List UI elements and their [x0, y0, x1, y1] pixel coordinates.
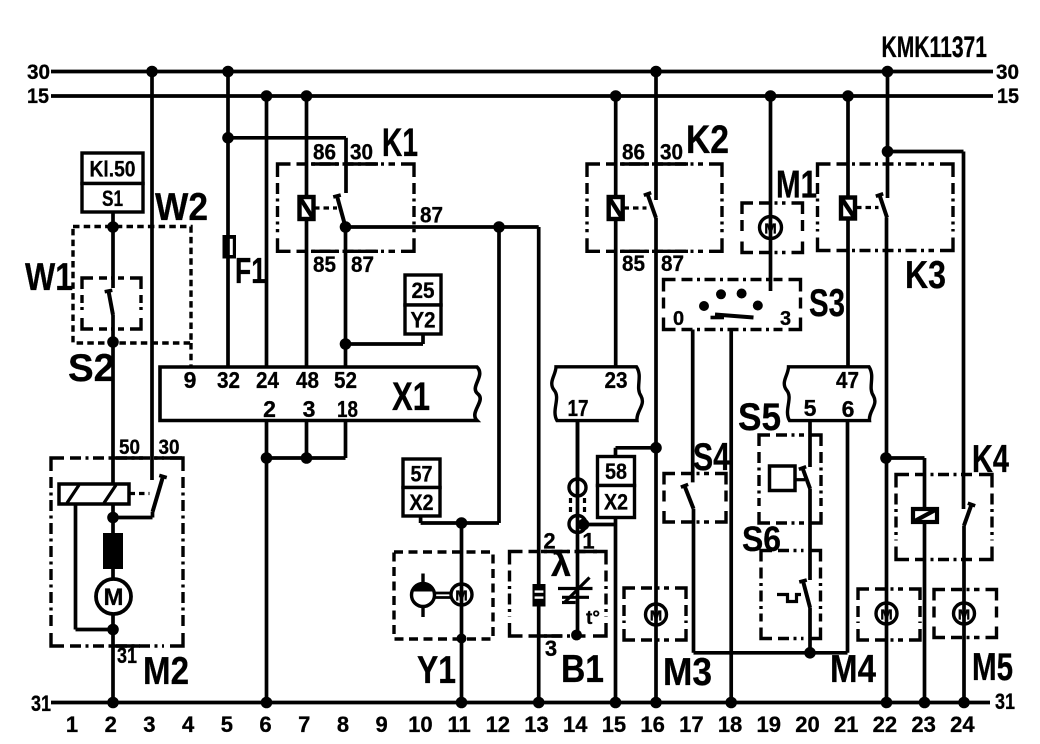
- svg-text:X2: X2: [604, 490, 628, 515]
- svg-text:86: 86: [622, 140, 645, 165]
- connector flag 23/17: [552, 367, 643, 421]
- relay K2 box: [587, 164, 722, 251]
- junction dot bus15 col6: [261, 90, 273, 102]
- switch S3 wiper: [711, 315, 754, 318]
- switch S3 box: [664, 280, 801, 330]
- svg-text:4: 4: [182, 712, 195, 737]
- junction dot bus30 col3: [146, 66, 158, 78]
- svg-text:58: 58: [605, 459, 627, 484]
- wire flag6 down: [846, 421, 850, 653]
- sensor B1 box: [510, 552, 607, 637]
- junction dot bus31 col23: [919, 697, 931, 709]
- svg-text:1: 1: [66, 712, 78, 737]
- net 30 bus label right: [996, 61, 1019, 84]
- svg-text:3: 3: [303, 396, 316, 422]
- wire M2 blade out: [113, 512, 153, 518]
- terminal label 50: [119, 436, 140, 459]
- svg-text:30: 30: [660, 140, 683, 165]
- switch K2 blade: [644, 193, 656, 218]
- connector X1 body: [160, 367, 480, 421]
- relay K3 box: [818, 164, 954, 251]
- pin label 5: [804, 395, 817, 421]
- wire W2 dashed to X1 pin 9: [189, 343, 192, 367]
- wire M3 through motor: [654, 604, 658, 625]
- label K1: [382, 121, 418, 165]
- wire K2 coil column: [614, 96, 618, 367]
- wire X1 pins join: [267, 456, 346, 460]
- motor M2 circle: [96, 579, 131, 614]
- relay coil K2: [609, 197, 623, 219]
- svg-text:52: 52: [334, 367, 357, 393]
- relay coil K4: [913, 509, 937, 522]
- solid bars B1 pins: [540, 552, 597, 637]
- solid bar under 50: [114, 456, 143, 459]
- junction dot bus31 col16: [650, 697, 662, 709]
- terminal label 30 K1: [350, 140, 373, 165]
- svg-text:M3: M3: [663, 651, 712, 694]
- motor M3 box: [624, 588, 686, 640]
- svg-text:19: 19: [757, 712, 781, 737]
- svg-text:M: M: [958, 607, 971, 624]
- label S5: [738, 396, 781, 439]
- junction dot bus30 col5: [222, 66, 234, 78]
- junction dot bus31 col13: [533, 697, 545, 709]
- switch S4 blade: [681, 484, 694, 508]
- wire K2 out: [654, 218, 658, 703]
- svg-text:12: 12: [486, 712, 510, 737]
- position label 3 S3: [780, 308, 791, 330]
- motor Y1 M text: [455, 588, 468, 605]
- switch S5 box: [759, 435, 821, 523]
- svg-text:85: 85: [622, 251, 645, 276]
- terminal label 87 K1: [351, 252, 374, 277]
- label X1: [392, 375, 430, 419]
- label t deg: [586, 608, 600, 629]
- pump Y1 symbol: [412, 574, 452, 618]
- svg-text:2: 2: [105, 712, 117, 737]
- junction dot bus30 col16: [650, 66, 662, 78]
- junction dot X1 join a: [261, 452, 273, 464]
- wire B1 pin1: [576, 421, 580, 636]
- pin label 47: [836, 367, 859, 393]
- svg-text:7: 7: [298, 712, 310, 737]
- mech link M2 dashed: [130, 492, 150, 495]
- pin label 2 B1: [543, 529, 555, 554]
- motor M5 box: [934, 590, 997, 638]
- svg-text:3: 3: [780, 308, 791, 330]
- wire S1 to S2: [111, 212, 115, 288]
- pin label 18: [337, 396, 358, 422]
- wire S2 to M2: [111, 315, 115, 484]
- switch K1 blade: [333, 195, 345, 227]
- svg-text:23: 23: [605, 367, 628, 393]
- wire 57X2 stub: [419, 516, 423, 523]
- pin label 48: [296, 367, 319, 393]
- label M1: [776, 164, 817, 207]
- svg-text:17: 17: [568, 395, 589, 421]
- track numbers 1-24: [66, 712, 975, 737]
- wire K4 out: [962, 526, 966, 703]
- wire Y1 column: [460, 523, 464, 703]
- wire K1 87 to X1 52: [344, 227, 348, 367]
- svg-text:3: 3: [545, 636, 557, 661]
- svg-text:F1: F1: [235, 250, 266, 291]
- label M2: [143, 650, 189, 693]
- wire flag17 to connector: [576, 421, 580, 479]
- svg-text:15: 15: [602, 712, 626, 737]
- svg-text:87: 87: [661, 251, 684, 276]
- wire connector to ground col: [584, 518, 616, 703]
- motor M5 circle: [954, 603, 975, 624]
- svg-text:M5: M5: [972, 646, 1013, 689]
- svg-text:30: 30: [996, 61, 1019, 84]
- svg-text:31: 31: [995, 689, 1015, 714]
- junction dot M4 branch: [880, 452, 892, 464]
- svg-text:20: 20: [795, 712, 819, 737]
- svg-text:31: 31: [31, 691, 51, 716]
- junction dot bus15 col7: [301, 90, 313, 102]
- pin label 32: [217, 367, 240, 393]
- wire S4 out: [694, 509, 848, 653]
- junction dot bus31 col22: [881, 697, 893, 709]
- junction dot K2 out branch: [650, 442, 662, 454]
- junction dot Y2 tap: [340, 338, 352, 350]
- motor Y1 circle: [451, 584, 472, 605]
- solid bars K1 terminals: [311, 164, 378, 251]
- terminal label 87 net: [420, 203, 443, 228]
- label M5: [972, 646, 1013, 689]
- pin label 3 B1: [545, 636, 557, 661]
- motor M4 box: [858, 589, 920, 640]
- terminal label 85 K1: [313, 252, 336, 277]
- solid bar above 31 M2: [114, 644, 140, 647]
- svg-text:87: 87: [420, 203, 443, 228]
- wire flag5 to S5: [808, 421, 812, 467]
- svg-text:S3: S3: [809, 282, 845, 325]
- svg-text:Y1: Y1: [417, 649, 456, 692]
- wire K3 switch feed: [886, 72, 890, 199]
- wire S6 out: [808, 608, 812, 653]
- switch K3 blade: [876, 194, 887, 218]
- junction dot K3 branch: [882, 146, 894, 158]
- switch K4 blade: [964, 503, 975, 525]
- junction dot bus31 col24: [958, 697, 970, 709]
- svg-text:30: 30: [350, 140, 373, 165]
- svg-text:17: 17: [679, 712, 703, 737]
- pin label 2: [263, 396, 276, 422]
- junction dot net87 branch: [493, 221, 505, 233]
- wire Y1 through motor: [460, 584, 464, 605]
- mech link K1 dashed: [314, 206, 337, 209]
- wire S3 to bus31: [729, 330, 733, 703]
- svg-text:Kl.50: Kl.50: [90, 156, 136, 181]
- motor M3 M text: [650, 608, 663, 625]
- inline connector B1 circles: [569, 479, 586, 533]
- svg-text:30: 30: [27, 61, 50, 84]
- junction dot B1 pin3: [571, 630, 582, 641]
- mech link K3 dashed: [856, 206, 879, 209]
- junction dot node 50a: [107, 221, 119, 233]
- svg-text:21: 21: [834, 712, 858, 737]
- wire M2 left branch: [76, 504, 114, 630]
- solid bars K2 terminals: [620, 164, 688, 251]
- wire net87 down col12: [421, 227, 499, 523]
- junction dot bus31 col2: [107, 697, 119, 709]
- wire 58X2 link: [616, 448, 657, 457]
- wire M5 through motor: [962, 603, 966, 624]
- junction dot M2 a: [107, 512, 119, 524]
- svg-text:K1: K1: [382, 121, 418, 165]
- terminal label 86 K1: [313, 140, 336, 165]
- svg-text:15: 15: [997, 85, 1019, 108]
- wire Y2 to node: [346, 334, 424, 344]
- terminal label 85 K2: [622, 251, 645, 276]
- label S4: [693, 436, 730, 479]
- wire X1 pin2 down: [265, 421, 269, 703]
- pin label 24: [256, 367, 279, 393]
- wire bus 30: [51, 70, 993, 74]
- net 30 bus label left: [27, 61, 50, 84]
- wire K4 coil feed: [886, 458, 925, 703]
- switch S6 blade: [799, 580, 810, 607]
- motor M1 box: [742, 203, 803, 253]
- svg-text:M1: M1: [776, 164, 817, 207]
- svg-text:K3: K3: [905, 254, 946, 297]
- motor assembly M2 box: [51, 458, 183, 646]
- solid bar under 30 M2: [154, 456, 182, 459]
- junction dot Y1 feed: [456, 517, 468, 529]
- junction dot bus15 col15: [610, 90, 622, 102]
- wire X1 pin3 down: [305, 421, 309, 459]
- net 31 bus label right: [995, 689, 1015, 714]
- switch M2 blade: [153, 475, 167, 512]
- wire B1 heater to bus31: [537, 607, 541, 703]
- svg-text:30: 30: [159, 436, 180, 459]
- svg-text:W1: W1: [25, 256, 73, 299]
- svg-text:B1: B1: [561, 648, 604, 691]
- svg-text:15: 15: [27, 85, 49, 108]
- net 15 bus label left: [27, 85, 49, 108]
- svg-text:M4: M4: [830, 648, 876, 691]
- svg-text:24: 24: [256, 367, 279, 393]
- net 31 bus label left: [31, 691, 51, 716]
- svg-text:KMK11371: KMK11371: [882, 31, 988, 64]
- switch S4 box: [664, 474, 726, 523]
- terminal label 86 K2: [622, 140, 645, 165]
- motor M1 circle: [760, 217, 782, 239]
- terminal label 30 M2: [159, 436, 180, 459]
- svg-text:22: 22: [873, 712, 897, 737]
- svg-text:K2: K2: [686, 118, 729, 162]
- terminal label 87 K2: [661, 251, 684, 276]
- solenoid winding M2: [59, 484, 129, 504]
- junction dot X1 join b: [301, 452, 313, 464]
- svg-text:M: M: [764, 221, 777, 238]
- junction dot bus31 col6: [261, 697, 273, 709]
- wire M1 column: [769, 96, 773, 291]
- resistor M2 series winding: [103, 504, 123, 579]
- relay K4 box: [896, 475, 992, 560]
- wire M2 to bus 31: [111, 614, 115, 703]
- switch S2 blade: [105, 290, 113, 315]
- svg-text:11: 11: [447, 712, 470, 737]
- terminal box S1 Kl.50: [82, 153, 143, 212]
- terminal label 30 K2: [660, 140, 683, 165]
- svg-text:16: 16: [640, 712, 664, 737]
- svg-text:M: M: [880, 607, 893, 624]
- svg-text:3: 3: [143, 712, 155, 737]
- label B1: [561, 648, 604, 691]
- mech link K2 dashed: [624, 206, 647, 209]
- fuse F1: [223, 235, 237, 259]
- svg-text:8: 8: [337, 712, 349, 737]
- svg-text:S2: S2: [68, 347, 115, 390]
- coil K3 wire: [846, 96, 850, 367]
- switch S5 blade: [799, 467, 810, 489]
- pin label 3: [303, 396, 316, 422]
- svg-text:18: 18: [337, 396, 358, 422]
- label M4: [830, 648, 876, 691]
- terminal box 58 X2: [598, 457, 635, 518]
- motor M3 circle: [646, 604, 667, 625]
- svg-text:λ: λ: [551, 546, 571, 583]
- motor M1 M text: [764, 221, 777, 238]
- svg-text:M: M: [650, 608, 663, 625]
- coil K1 wire: [305, 96, 309, 367]
- svg-text:13: 13: [524, 712, 548, 737]
- junction dot connector: [578, 519, 590, 531]
- label S3: [809, 282, 845, 325]
- junction dot S2 out: [107, 336, 119, 348]
- wire X1 pin18 down: [344, 421, 348, 459]
- wire M4 through motor: [885, 603, 889, 624]
- wire col6 bus15 to X1 24: [265, 96, 269, 367]
- svg-text:24: 24: [950, 712, 975, 737]
- wire K1 30 feed: [228, 138, 346, 193]
- svg-text:S5: S5: [738, 396, 781, 439]
- svg-text:t°: t°: [586, 608, 600, 629]
- svg-text:57: 57: [411, 461, 433, 486]
- svg-text:32: 32: [217, 367, 240, 393]
- junction dot bus15 col21: [842, 90, 854, 102]
- svg-text:2: 2: [263, 396, 276, 422]
- svg-text:M: M: [455, 588, 468, 605]
- wire col3 from bus 30: [150, 72, 154, 481]
- junction dot bus31 col18: [725, 697, 737, 709]
- pin label 1 B1: [582, 529, 594, 554]
- label S6: [742, 520, 781, 559]
- label K4: [972, 438, 1009, 481]
- terminal box 57 X2: [403, 459, 440, 516]
- wire bus 15: [51, 94, 993, 98]
- wire K2 switch feed: [654, 72, 658, 201]
- junction dot S6 out: [804, 647, 816, 659]
- heater white slits: [535, 590, 544, 598]
- switch S2 frame: [82, 278, 141, 329]
- label W1: [25, 256, 73, 299]
- sensor element B1: [558, 578, 593, 603]
- switch S6 box: [761, 551, 821, 639]
- svg-text:85: 85: [313, 252, 336, 277]
- svg-text:W2: W2: [155, 186, 208, 229]
- svg-text:50: 50: [119, 436, 140, 459]
- junction dot M2 b: [107, 624, 119, 636]
- svg-text:14: 14: [563, 712, 588, 737]
- label S2: [68, 347, 115, 390]
- wire F1 column: [226, 72, 230, 368]
- svg-text:M: M: [104, 584, 124, 611]
- pressure actuator S5: [770, 466, 806, 491]
- relay coil K1: [300, 197, 314, 219]
- terminal label 31 M2: [117, 643, 137, 668]
- thermal element S6: [777, 595, 801, 602]
- pin label 6: [842, 396, 855, 422]
- svg-text:S1: S1: [102, 186, 123, 211]
- svg-text:18: 18: [718, 712, 742, 737]
- wire S5 to S6: [808, 489, 812, 581]
- wire net87 to B1 heater: [537, 227, 541, 584]
- svg-text:25: 25: [412, 278, 435, 303]
- connector flag 47: [784, 367, 875, 421]
- junction dot node K1 feed: [222, 132, 234, 144]
- svg-text:87: 87: [351, 252, 374, 277]
- svg-text:Y2: Y2: [411, 308, 436, 333]
- pin label 23: [605, 367, 628, 393]
- label K3: [905, 254, 946, 297]
- svg-text:0: 0: [673, 308, 684, 330]
- switch S3 contacts: [699, 289, 763, 312]
- junction dot bus30 col22: [882, 66, 894, 78]
- valve Y1 dashed box: [394, 552, 493, 639]
- label Y1: [417, 649, 456, 692]
- svg-text:9: 9: [376, 712, 388, 737]
- relay K1 box: [278, 164, 415, 251]
- motor M4 circle: [876, 603, 897, 624]
- motor M4 M text: [880, 607, 893, 624]
- label M3: [663, 651, 712, 694]
- pin label 9: [184, 367, 197, 393]
- label W2: [155, 186, 208, 229]
- svg-text:5: 5: [221, 712, 233, 737]
- svg-text:M2: M2: [143, 650, 189, 693]
- label F1: [235, 250, 266, 291]
- junction dot bus31 col15: [610, 697, 622, 709]
- svg-text:9: 9: [184, 367, 197, 393]
- pin label 52: [334, 367, 357, 393]
- wire net 87: [346, 225, 539, 229]
- svg-text:6: 6: [259, 712, 271, 737]
- junction dot bus31 col11: [456, 697, 468, 709]
- terminal box Y2 25: [405, 275, 441, 334]
- relay coil K3: [841, 198, 855, 219]
- motor M5 M text: [958, 607, 971, 624]
- svg-text:47: 47: [836, 367, 859, 393]
- svg-text:5: 5: [804, 395, 817, 421]
- wire M1 through motor: [769, 217, 773, 238]
- junction dot K1 87: [340, 221, 352, 233]
- lambda symbol: [551, 546, 571, 583]
- svg-text:10: 10: [408, 712, 432, 737]
- svg-text:X2: X2: [410, 490, 434, 515]
- label K2: [686, 118, 729, 162]
- svg-text:86: 86: [313, 140, 336, 165]
- heater B1: [533, 584, 546, 607]
- svg-text:6: 6: [842, 396, 855, 422]
- svg-text:X1: X1: [392, 375, 430, 419]
- wire bus 31: [51, 701, 990, 705]
- wire S3 to S4: [691, 330, 695, 483]
- position label 0: [673, 308, 684, 330]
